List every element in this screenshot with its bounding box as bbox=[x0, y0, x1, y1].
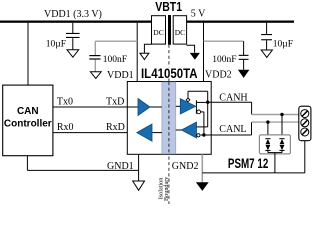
ground hook under VBT1 primary bbox=[144, 44, 151, 53]
DC/DC converter VBT1 isolation bar bbox=[168, 15, 171, 45]
wire TVS common to GND2 bus bbox=[274, 153, 276, 173]
node CANH junction bbox=[206, 101, 209, 104]
wire 5V rail to IL41050TA VDD2 pin bbox=[203, 23, 205, 82]
wire bubble to CANL bbox=[201, 111, 204, 113]
node CANL junction bbox=[202, 133, 205, 136]
wire CANH bbox=[208, 101, 252, 103]
wire band to driver bbox=[176, 105, 181, 107]
wire GND2 pin of U1 (gray) bbox=[201, 154, 203, 182]
wire connector pin3 drop bbox=[304, 141, 306, 173]
svg-text:GND2: GND2 bbox=[172, 161, 199, 172]
terminal 1 bbox=[301, 110, 309, 118]
buffer TxD (left, points right) bbox=[138, 99, 150, 116]
driver high-side bubble bbox=[186, 98, 190, 102]
terminal 3 bbox=[301, 128, 309, 136]
capacitor C1 10uF stub bbox=[72, 23, 74, 33]
ground GND2 symbol (filled) bbox=[196, 182, 209, 191]
wire RxD bbox=[53, 132, 137, 134]
wire TVS common bbox=[268, 152, 282, 154]
capacitor C3 100nF plates bbox=[239, 55, 249, 56]
svg-text:GND1: GND1 bbox=[107, 161, 134, 172]
node CANH tap bbox=[280, 113, 283, 116]
svg-text:10µF: 10µF bbox=[46, 39, 66, 49]
terminal 2 bbox=[301, 119, 309, 127]
driver output bar bbox=[195, 100, 197, 114]
node CANL tap bbox=[266, 120, 269, 123]
wire CANH step bbox=[251, 102, 253, 114]
isolation boundary dashed line bbox=[168, 45, 170, 205]
receiver triangle (points left) bbox=[182, 122, 197, 138]
ground GND1 under C2 bbox=[90, 72, 101, 79]
ground hook under VBT1 secondary bbox=[187, 45, 195, 53]
capacitor C2 100nF plates bbox=[89, 55, 100, 56]
wire CANL bbox=[201, 134, 252, 136]
svg-text:Boundary: Boundary bbox=[163, 176, 170, 201]
wire receiver out to band bbox=[176, 129, 182, 131]
svg-text:TxD: TxD bbox=[106, 97, 124, 108]
wire CANL tap to TVS bbox=[267, 122, 269, 139]
buffer RxD (points left) bbox=[137, 124, 152, 141]
TVS pair CANH bbox=[279, 139, 284, 153]
svg-text:100nF: 100nF bbox=[212, 55, 236, 65]
net VDD1 (3.3V) rail bbox=[0, 21, 152, 23]
ground under C4 bbox=[261, 50, 272, 57]
wire CANH tap to TVS bbox=[281, 115, 283, 139]
wire gray VDD1 to C2 bbox=[95, 40, 137, 42]
wire GND2 bus to connector bbox=[202, 172, 304, 174]
wire buffer to band bbox=[150, 106, 162, 108]
connector J1 bbox=[299, 106, 311, 141]
svg-text:Tx0: Tx0 bbox=[57, 97, 73, 108]
ground GND1 symbol bbox=[133, 181, 145, 190]
net 5V rail bbox=[187, 21, 295, 23]
wire CANL step bbox=[251, 122, 253, 135]
TVS pair CANL bbox=[265, 139, 270, 153]
receiver CANL input bubble bbox=[197, 134, 200, 137]
DC/DC converter VBT1 primary box bbox=[152, 16, 166, 44]
svg-text:VDD1 (3.3 V): VDD1 (3.3 V) bbox=[44, 9, 102, 20]
wire band to RxD buffer bbox=[152, 132, 162, 134]
wire VDD1 rail to CAN controller bbox=[27, 23, 29, 85]
svg-text:RxD: RxD bbox=[106, 122, 125, 133]
svg-text:Rx0: Rx0 bbox=[57, 122, 74, 133]
svg-text:CANL: CANL bbox=[219, 124, 246, 135]
svg-text:CAN: CAN bbox=[17, 106, 39, 117]
wire bar to CANH node bbox=[196, 101, 207, 103]
wire receiver CANH input bbox=[197, 126, 208, 128]
wire VDD1 rail to IL41050TA VDD1 pin bbox=[136, 23, 138, 82]
capacitor C1 10uF plates bbox=[66, 33, 80, 34]
driver triangle (points right) bbox=[180, 99, 195, 114]
wire TxD bbox=[53, 106, 127, 108]
capacitor C4 10uF right stub bbox=[266, 23, 268, 34]
wire GND1 bus bbox=[27, 169, 138, 171]
wire GND1 pin of U1 bbox=[138, 154, 140, 181]
svg-text:DC: DC bbox=[175, 28, 185, 37]
ground GND2 under C3 (filled) bbox=[238, 70, 250, 78]
svg-text:Controller: Controller bbox=[4, 119, 52, 130]
capacitor C4 10uF plates bbox=[261, 34, 272, 35]
wire TxD inside U1 bbox=[127, 106, 138, 108]
CAN Controller box bbox=[3, 85, 53, 156]
transceiver U1 IL41050TA box bbox=[127, 82, 211, 155]
svg-text:5 V: 5 V bbox=[191, 9, 206, 20]
wire top to CANH bbox=[188, 90, 208, 92]
driver low-side bubble bbox=[197, 110, 201, 114]
chip label IL41050TA bbox=[140, 67, 199, 78]
svg-text:IL41050TA: IL41050TA bbox=[141, 66, 198, 81]
svg-text:100nF: 100nF bbox=[103, 55, 127, 65]
TVS array D1 PSM712 box bbox=[259, 135, 290, 154]
ground GND2 under VBT1 (filled) bbox=[190, 53, 200, 60]
ground GND1 under C1 bbox=[67, 50, 79, 57]
svg-text:PSM7 12: PSM7 12 bbox=[228, 155, 269, 171]
wire bubble up bbox=[187, 91, 189, 98]
svg-text:CANH: CANH bbox=[219, 92, 247, 103]
svg-text:10µF: 10µF bbox=[273, 39, 293, 49]
wire gray VDD2 to C3 bbox=[204, 40, 244, 42]
isolation band inside U1 bbox=[162, 82, 176, 154]
wire gray CANL to connector bbox=[252, 121, 299, 123]
DC/DC converter VBT1 secondary box bbox=[173, 16, 186, 44]
svg-text:VDD1: VDD1 bbox=[107, 70, 134, 81]
svg-text:DC: DC bbox=[153, 28, 163, 37]
svg-text:VBT1: VBT1 bbox=[155, 0, 182, 14]
wire gray CANH to connector bbox=[252, 114, 299, 116]
svg-text:VDD2: VDD2 bbox=[205, 70, 232, 81]
wire GND1: CAN controller down bbox=[26, 156, 28, 171]
ground GND1 under VBT1 bbox=[140, 53, 149, 59]
